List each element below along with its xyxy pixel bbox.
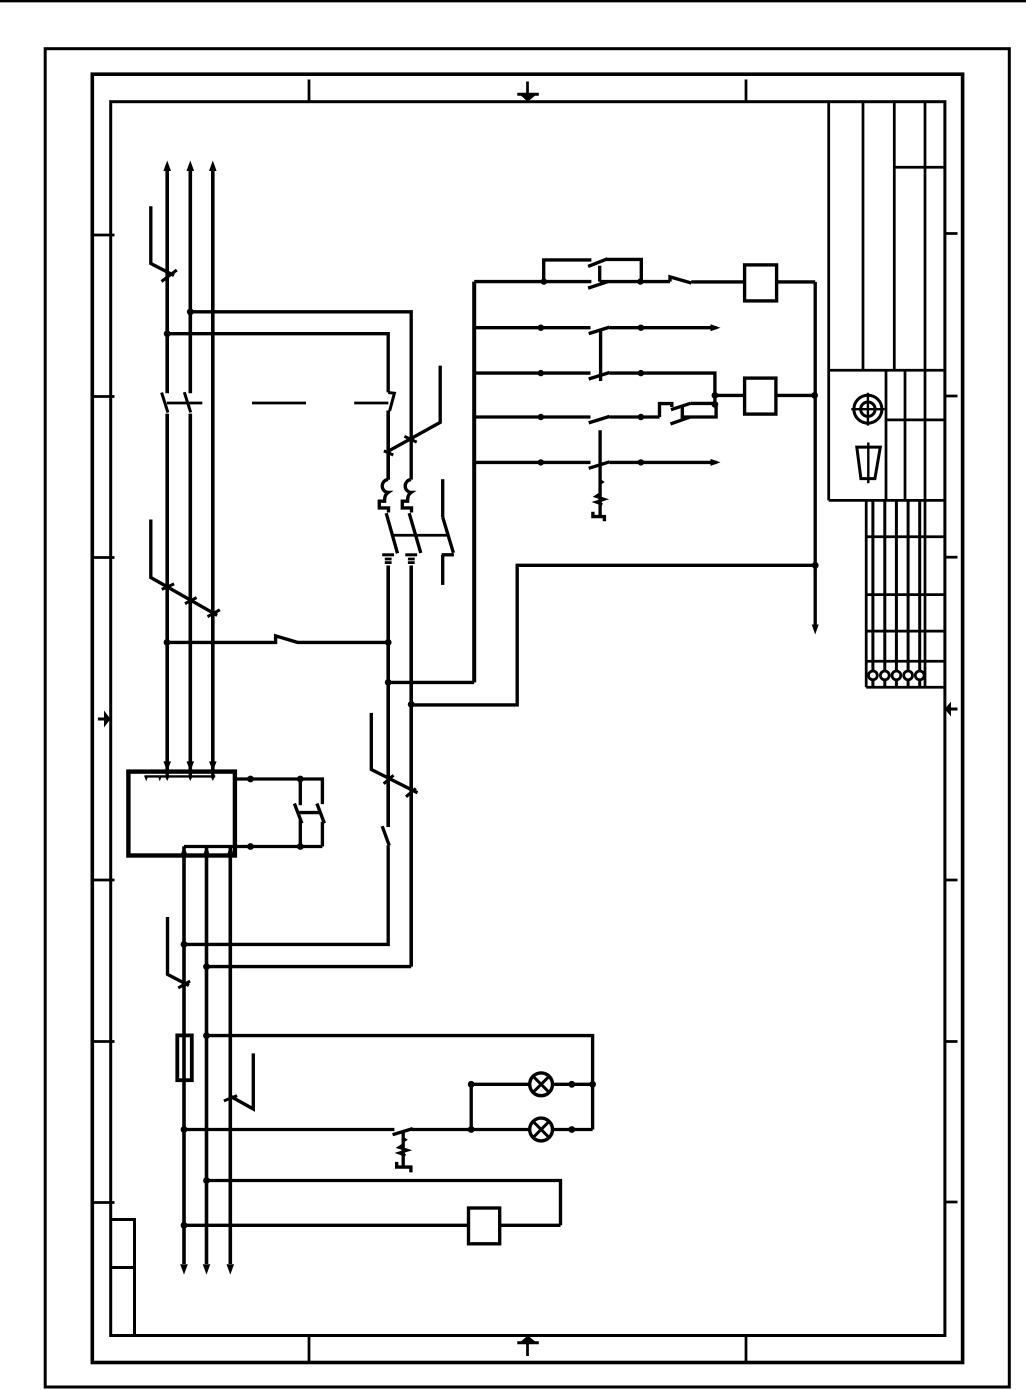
junction rung2 a: [538, 325, 544, 331]
junction rung5 b: [638, 459, 644, 465]
circuit breaker QF1 pole on phase A: [162, 393, 168, 413]
thermal overload FR1 heater pole 1: [379, 480, 397, 563]
rung1 wire left: [474, 280, 591, 283]
motor M1 output terminals: [181, 846, 234, 856]
mechanical link rung2-rung3: [599, 329, 602, 381]
thermal trip linkage bar: [392, 534, 448, 537]
junction rung1 a: [541, 278, 547, 284]
contactor coil KM1: [745, 265, 777, 301]
control circuit right rail: [814, 282, 817, 627]
junction rung4 a: [538, 414, 544, 420]
switch QS3 two-pole: [371, 713, 417, 797]
motor unit M1 box: [128, 772, 235, 856]
junction coil2 node: [712, 392, 719, 399]
outgoing arrow line1: [180, 1264, 188, 1274]
wire phase A lower: [165, 414, 169, 772]
breaker linkage dashes: [167, 402, 389, 405]
wire line2 down: [205, 846, 209, 1264]
wire coil2 feed: [715, 394, 745, 397]
wire brake top: [235, 779, 323, 804]
junction lamp feed: [203, 1032, 210, 1039]
junction W4 left: [385, 679, 392, 686]
rung2 wire: [474, 326, 716, 329]
wire main A mid: [386, 566, 390, 828]
time relay block KT1: [544, 259, 642, 288]
pushbutton SB1 actuator: [593, 430, 605, 521]
wire W2 to breaker pole 1: [167, 334, 388, 393]
motor M1 input terminals: [144, 761, 217, 781]
junction rung4 node: [712, 401, 719, 408]
breaker QF1 contact hook pole 1: [388, 393, 394, 412]
rung1 wire right: [691, 280, 744, 283]
junction brake top 2: [297, 776, 304, 783]
wire W1 to breaker pole 2: [190, 312, 411, 480]
junction brake top 1: [247, 776, 254, 783]
wire main B mid: [409, 566, 413, 967]
wire phase B lower: [189, 414, 193, 772]
junction row A rail: [589, 1081, 596, 1088]
junction rung5 a: [538, 459, 544, 465]
contact KM1 rung2: [589, 327, 610, 334]
junction W3 right: [385, 639, 392, 646]
wire lamp parallel link: [470, 1084, 473, 1129]
wire phase B upper: [189, 166, 193, 393]
contact KM2 rung3: [589, 373, 610, 380]
junction line1: [181, 941, 188, 948]
junction row A left: [468, 1081, 475, 1088]
rail ground arrow: [812, 625, 819, 635]
junction W5 top: [408, 701, 415, 708]
breaker QF1 blade with anchor: [384, 366, 440, 455]
top centering mark: [526, 82, 529, 95]
junction on phase B: [187, 308, 194, 315]
brake connector contacts: [294, 779, 324, 847]
wire lamp return with pushbutton SB2: [184, 1128, 394, 1131]
disconnect switch QS2 three-pole: [151, 520, 220, 617]
junction coil feed: [203, 1177, 210, 1184]
rung5 arrow out: [711, 459, 721, 466]
wire coil feed: [207, 1181, 561, 1226]
rung4 wire: [474, 415, 659, 418]
relay coil KA1: [469, 1208, 500, 1244]
left centering mark: [98, 718, 105, 721]
wire main A upper: [386, 411, 390, 480]
outgoing arrow line3: [227, 1264, 235, 1274]
junction rung2 b: [638, 325, 644, 331]
wire main A to bottom: [184, 826, 389, 944]
right centering mark: [951, 708, 958, 711]
junction coil2 rail: [811, 392, 818, 399]
fuse FU1: [177, 1035, 192, 1080]
wire phase C: [211, 166, 215, 772]
switch QS5: [224, 1053, 253, 1109]
wire main B to bottom: [207, 965, 412, 968]
rung5 wire: [474, 461, 716, 464]
junction brake bottom 1: [247, 843, 254, 850]
rung1 wire to rail: [777, 280, 816, 283]
wire line1 down: [182, 846, 186, 1264]
wire brake bottom: [184, 845, 322, 848]
control circuit left rail: [472, 282, 476, 683]
rung2 arrow out: [711, 324, 721, 331]
junction rail W5: [812, 562, 819, 569]
contactor coil KM2: [745, 378, 776, 414]
wire coil2 to rail: [776, 394, 815, 397]
junction rung4 b: [638, 414, 644, 420]
panel middle section dividers: [829, 370, 945, 500]
wire lamp feed: [207, 1036, 593, 1130]
auxiliary pole C: [442, 479, 454, 585]
lamp HL1: [530, 1073, 553, 1096]
rung1 wire mid: [600, 280, 670, 283]
junction lamp left: [468, 1126, 475, 1133]
wire lamp row A: [471, 1083, 592, 1086]
limit switch SQ2: [660, 403, 717, 424]
circuit breaker QF1 pole on phase B: [184, 392, 190, 412]
title block stub bottom-left: [111, 1220, 135, 1336]
terminal circles: [869, 671, 925, 680]
contact KM1 rung4: [589, 416, 610, 423]
node L2 incoming arrow: [187, 161, 195, 172]
lamp HL2: [530, 1118, 553, 1141]
junction W3 left: [164, 639, 171, 646]
wire W3 with interlock contact: [167, 636, 388, 643]
outgoing arrow line2: [203, 1264, 211, 1274]
wire W4 to control rail: [388, 681, 474, 684]
target adjuster symbol: [851, 393, 884, 426]
wire lamp branch: [411, 1128, 592, 1131]
rung3 wire: [474, 373, 715, 404]
junction rung1 b: [637, 278, 643, 284]
junction on phase A: [164, 330, 171, 337]
node L3 incoming arrow: [209, 161, 217, 172]
funnel symbol: [857, 443, 881, 484]
wire phase A upper: [165, 166, 169, 393]
junction coil return: [181, 1222, 188, 1229]
junction rung3 a: [538, 370, 544, 376]
cable strip section: [866, 500, 945, 687]
wire W5 to right rail: [411, 565, 815, 705]
terminal panel XT columns: [829, 102, 945, 688]
junction row A right: [568, 1081, 575, 1088]
junction line2: [203, 963, 210, 970]
contact SQ1 on rung1: [670, 277, 691, 283]
pushbutton SB2: [393, 1129, 413, 1173]
thermal overload FR1 heater pole 2: [402, 480, 421, 563]
wire line3 down: [229, 846, 233, 1264]
junction lamp return: [181, 1126, 188, 1133]
wire coil return: [184, 1224, 561, 1227]
node L1 incoming arrow: [163, 161, 171, 172]
disconnect switch QS1: [151, 206, 177, 281]
contact SB1 rung5: [589, 462, 610, 469]
junction brake bottom 2: [297, 843, 304, 850]
switch QS4: [168, 917, 191, 988]
junction rung3 b: [638, 370, 644, 376]
junction row B right: [568, 1126, 575, 1133]
bottom centering mark: [526, 1343, 529, 1356]
